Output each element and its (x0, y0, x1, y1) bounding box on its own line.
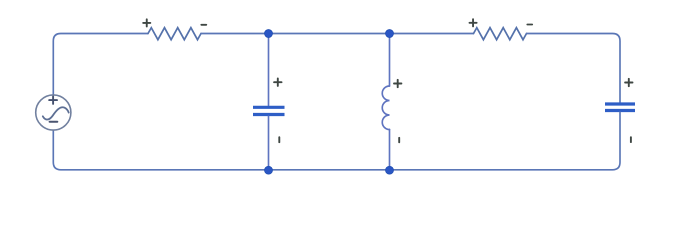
label L1 minus (398, 138, 400, 143)
resistor R2 (474, 28, 527, 40)
wire: C2 down to bottom-right corner (53, 112, 620, 170)
node A top-left junction dot (265, 30, 273, 38)
capacitor C2 (605, 104, 635, 111)
label R2 minus (527, 24, 532, 26)
label C2 minus (630, 137, 632, 142)
V1 minus (50, 121, 58, 123)
label C2 plus (625, 79, 632, 86)
AC source V1 (36, 95, 71, 130)
wire: L1 branch lower (389, 130, 391, 171)
resistor R1 (148, 28, 201, 40)
node D bottom-right junction dot (386, 166, 394, 174)
V1 plus (49, 96, 57, 104)
wire: R1 to R2 across top nodes (201, 33, 474, 35)
wire: C1 branch upper (268, 34, 270, 106)
label L1 plus (394, 80, 401, 87)
label R1 minus (201, 24, 206, 26)
node C bottom-left junction dot (265, 166, 273, 174)
inductor L1 (382, 86, 389, 130)
wire: L1 branch upper (389, 34, 391, 87)
node B top-right junction dot (386, 30, 394, 38)
label C1 plus (274, 79, 281, 86)
wire: C1 branch lower (268, 116, 270, 170)
wire: R2 to top-right corner down to C2 (527, 34, 621, 103)
label C1 minus (278, 137, 280, 142)
wire: top-left corner from source to R1 (53, 34, 148, 96)
label R1 plus (143, 19, 150, 26)
label R2 plus (470, 19, 477, 26)
capacitor C1 (253, 107, 285, 114)
V1 sine wave (43, 107, 69, 119)
